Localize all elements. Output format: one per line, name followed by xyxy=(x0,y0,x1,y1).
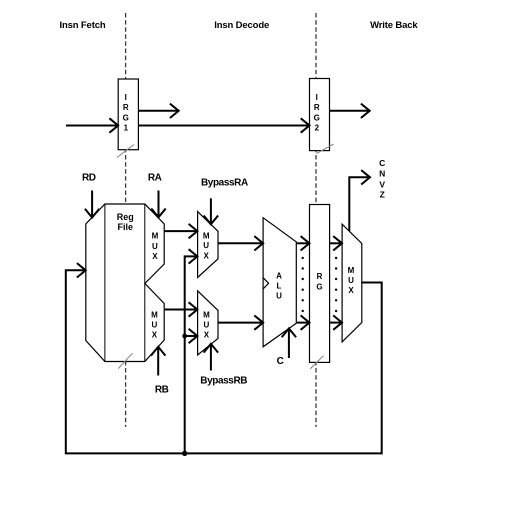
wire IRG1 output (top) xyxy=(138,110,178,112)
svg-text:Write Back: Write Back xyxy=(370,20,418,31)
wire C into ALU xyxy=(288,329,290,359)
svg-text:RD: RD xyxy=(82,172,96,183)
svg-text:Z: Z xyxy=(380,190,385,200)
wire BypassRA to ALU xyxy=(218,242,263,244)
wire into IRG1 xyxy=(66,125,118,127)
svg-text:M: M xyxy=(152,232,159,241)
svg-text:M: M xyxy=(203,310,210,319)
mux writeback xyxy=(342,224,362,342)
svg-text:U: U xyxy=(152,242,158,251)
svg-text:RB: RB xyxy=(155,384,169,395)
svg-text:X: X xyxy=(348,286,354,295)
svg-text:V: V xyxy=(379,179,385,189)
wire reg file mux1 to BypassRA xyxy=(164,230,197,232)
alu xyxy=(263,218,296,347)
wire BypassRB to ALU xyxy=(218,322,263,324)
svg-text:I: I xyxy=(316,93,318,102)
wire reg file mux2 to BypassRB xyxy=(164,309,197,311)
svg-text:G: G xyxy=(314,113,320,122)
wire BypassRB select xyxy=(210,344,212,371)
svg-text:G: G xyxy=(316,282,322,291)
svg-text:N: N xyxy=(379,168,385,178)
svg-text:BypassRA: BypassRA xyxy=(201,178,248,189)
wire RA xyxy=(158,191,160,218)
svg-text:X: X xyxy=(152,252,158,261)
svg-text:A: A xyxy=(276,271,282,280)
wire ALU to RG (bottom) xyxy=(296,322,309,324)
mux BypassRA xyxy=(198,212,218,278)
svg-text:U: U xyxy=(152,320,158,329)
stage boundary dashed line (fetch/decode) xyxy=(125,13,127,427)
register IRG2 xyxy=(310,79,330,151)
svg-text:I: I xyxy=(125,93,127,102)
svg-text:C: C xyxy=(379,158,385,168)
svg-text:M: M xyxy=(348,266,355,275)
svg-text:1: 1 xyxy=(124,123,129,132)
svg-text:M: M xyxy=(151,310,158,319)
svg-text:File: File xyxy=(118,222,134,232)
register file block with embedded read muxes xyxy=(86,204,164,362)
svg-text:U: U xyxy=(203,241,209,250)
svg-text:G: G xyxy=(123,113,129,122)
svg-text:R: R xyxy=(314,103,320,112)
svg-text:X: X xyxy=(204,252,210,261)
svg-text:R: R xyxy=(123,103,129,112)
wire RG to writeback mux (top) xyxy=(330,242,342,244)
wire writeback feedback path xyxy=(66,270,382,453)
wire IRG2 output xyxy=(330,110,370,112)
wire ALU to RG (top) xyxy=(296,242,309,244)
wire IRG1 to IRG2 xyxy=(138,125,309,127)
slash mark on reg file xyxy=(118,353,132,368)
svg-text:2: 2 xyxy=(315,123,320,132)
junction bus/BypassRB xyxy=(182,334,187,339)
wire condition codes CNVZ xyxy=(349,177,370,231)
svg-text:C: C xyxy=(277,356,284,367)
svg-text:Insn Decode: Insn Decode xyxy=(214,20,269,31)
register IRG1 xyxy=(118,79,138,150)
wire RD xyxy=(91,191,93,218)
svg-text:X: X xyxy=(152,331,158,340)
svg-text:U: U xyxy=(348,276,354,285)
wire writeback bus up to BypassRA input xyxy=(185,256,198,453)
svg-text:U: U xyxy=(276,292,282,301)
wire RB xyxy=(157,347,159,376)
slash mark on IRG2 xyxy=(317,144,334,154)
ellipsis dots between ALU and RG xyxy=(302,257,304,312)
slash mark on IRG1 xyxy=(117,145,134,158)
register RG xyxy=(310,205,330,363)
wire BypassRA select xyxy=(210,198,212,224)
mux BypassRB xyxy=(198,291,218,355)
wire bus branch to BypassRB input xyxy=(185,335,198,337)
svg-text:BypassRB: BypassRB xyxy=(200,376,247,387)
svg-text:Insn Fetch: Insn Fetch xyxy=(59,20,105,31)
svg-text:X: X xyxy=(204,331,210,340)
ellipsis dots between RG and writeback mux xyxy=(335,257,337,312)
slash mark on RG xyxy=(310,356,323,369)
svg-text:R: R xyxy=(317,272,323,281)
stage boundary dashed line (decode/writeback) xyxy=(315,13,317,427)
junction writeback bus xyxy=(182,451,187,456)
wire RG to writeback mux (bottom) xyxy=(330,322,342,324)
svg-text:U: U xyxy=(204,320,210,329)
svg-text:L: L xyxy=(277,281,282,290)
svg-text:M: M xyxy=(203,232,210,241)
svg-text:RA: RA xyxy=(148,172,162,183)
svg-text:Reg: Reg xyxy=(117,212,134,222)
